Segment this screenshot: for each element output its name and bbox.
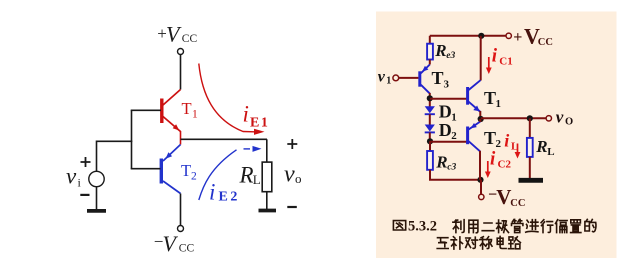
wire RL bottom — [266, 192, 268, 209]
caption char 二 — [482, 223, 494, 231]
label vo — [556, 108, 573, 128]
wire vi top — [96, 141, 98, 172]
svg-text:T: T — [182, 99, 192, 118]
svg-text:1: 1 — [496, 98, 502, 110]
resistor Re3 — [427, 44, 433, 60]
caption char 图 — [393, 221, 405, 230]
label RL — [239, 163, 261, 188]
arrowhead iE1 — [254, 129, 265, 135]
label iE1 — [243, 102, 270, 131]
wire vi to bus — [97, 140, 133, 142]
svg-text:+: + — [513, 29, 522, 46]
svg-text:3: 3 — [444, 79, 450, 91]
wire T2 collector to -Vcc — [180, 194, 182, 226]
label vo — [284, 162, 302, 188]
resistor RL — [527, 138, 533, 157]
svg-text:O: O — [565, 117, 573, 128]
caption char 管 — [512, 219, 523, 232]
ground under RL — [519, 178, 544, 183]
label D2 — [439, 120, 458, 142]
label iC1 — [492, 46, 513, 68]
transistor T2 (PNP, blue) — [161, 145, 180, 194]
wire Rc3 to bottom rail — [429, 170, 481, 181]
svg-text:L: L — [253, 172, 261, 187]
svg-text:i: i — [490, 148, 496, 169]
label D1 — [439, 101, 457, 123]
label Rc3 — [435, 152, 456, 172]
wire -Vcc stub — [480, 180, 482, 194]
transistor T2 (PNP, blue) — [468, 122, 481, 152]
wire Re3 top stub — [429, 36, 431, 44]
svg-text:T: T — [181, 161, 191, 180]
svg-text:1: 1 — [386, 76, 391, 87]
svg-text:C1: C1 — [499, 56, 512, 68]
terminal v1 — [393, 75, 399, 81]
wire RL top — [266, 139, 268, 161]
ground under RL — [259, 209, 277, 213]
ground under vi — [87, 209, 106, 213]
wire base T1 — [131, 109, 161, 111]
svg-text:T: T — [484, 88, 496, 108]
figure panel background — [376, 12, 617, 259]
label vi polarity - — [80, 194, 89, 196]
svg-text:2: 2 — [451, 130, 457, 142]
svg-text:C2: C2 — [498, 159, 512, 171]
label -Vcc — [154, 231, 195, 256]
wire output — [481, 117, 546, 119]
caption char 称 — [480, 237, 492, 249]
wire D1 to D2 — [429, 114, 431, 124]
junction dot bottom rail — [477, 177, 483, 183]
junction dot top rail — [478, 33, 484, 39]
current arrow iL — [517, 144, 519, 155]
svg-text:1: 1 — [192, 109, 198, 121]
wire RL bottom — [529, 157, 531, 178]
svg-text:i: i — [209, 180, 215, 205]
wire RL top — [529, 118, 531, 138]
svg-text:v: v — [284, 162, 295, 188]
svg-text:i: i — [504, 130, 509, 150]
svg-text:R: R — [239, 163, 254, 188]
junction dot node A — [427, 95, 433, 101]
wire T1 emitter to junction — [479, 111, 481, 119]
wire T2 collector down — [479, 151, 481, 180]
caption char 利 — [453, 220, 464, 233]
svg-text:T: T — [484, 128, 496, 148]
svg-text:T: T — [432, 68, 444, 88]
caption char 的 — [585, 219, 596, 231]
label iC2 — [490, 148, 511, 170]
caption char 置 — [571, 220, 581, 233]
wire Vcc to T1 collector — [180, 55, 182, 90]
terminal vo — [546, 116, 551, 121]
label iL — [504, 130, 518, 152]
label +Vcc — [157, 22, 197, 47]
caption char 极 — [497, 220, 509, 233]
svg-text:o: o — [295, 171, 302, 186]
caption — [393, 219, 596, 249]
label vi polarity + — [81, 157, 91, 167]
wire output node — [181, 138, 268, 140]
svg-text:5.3.2: 5.3.2 — [408, 219, 437, 235]
label T1 — [484, 88, 501, 110]
label T1 — [182, 99, 199, 121]
wire Re3 to T3 emitter — [429, 60, 431, 65]
wire base bus vertical — [131, 110, 133, 168]
caption char 偏 — [556, 220, 568, 233]
T1 emitter arrowhead — [473, 106, 479, 112]
terminal -Vcc — [178, 226, 184, 232]
wire node B to Rc3 — [429, 141, 431, 151]
label vo polarity + — [287, 139, 297, 149]
svg-text:v: v — [378, 69, 386, 86]
terminal +Vcc — [178, 49, 184, 55]
svg-text:i: i — [492, 46, 498, 67]
wire node B to T2 base — [430, 141, 467, 143]
source vi — [89, 171, 104, 186]
svg-text:R: R — [434, 41, 446, 60]
label +Vcc — [513, 23, 553, 48]
current arrow iC2 — [487, 161, 489, 174]
label vo polarity - — [287, 206, 297, 208]
caption char 对 — [466, 237, 478, 248]
svg-text:CC: CC — [538, 37, 553, 48]
terminal +Vcc — [506, 33, 511, 38]
wire emitter junction — [180, 131, 182, 145]
caption char 互 — [437, 238, 448, 249]
caption char 电 — [497, 236, 506, 248]
svg-text:i: i — [243, 102, 249, 127]
svg-text:E1: E1 — [250, 116, 269, 131]
current arc iE2 (blue) — [199, 150, 237, 200]
svg-text:e3: e3 — [446, 51, 455, 61]
svg-text:2: 2 — [496, 138, 502, 150]
svg-text:V: V — [496, 185, 511, 209]
diode D2 — [425, 125, 435, 133]
junction dot emitters — [478, 116, 484, 122]
label -Vcc — [488, 185, 525, 209]
label T2 — [181, 161, 197, 183]
current arrow iC1 — [488, 57, 490, 70]
wire top rail — [430, 35, 506, 37]
arrowhead iE2 — [253, 146, 262, 152]
svg-text:R: R — [535, 137, 547, 156]
caption char 进 — [526, 220, 538, 233]
svg-text:v: v — [556, 108, 564, 127]
label T3 — [432, 68, 450, 91]
svg-text:CC: CC — [179, 243, 195, 255]
svg-text:CC: CC — [182, 33, 198, 45]
caption char 行 — [541, 220, 553, 233]
wire Vcc to T1 collector — [480, 36, 482, 81]
T1 emitter arrowhead — [173, 124, 180, 130]
wire D2 to node B — [429, 132, 431, 141]
label T2 — [484, 128, 502, 150]
wire node A to T1 base — [430, 98, 467, 100]
svg-text:L: L — [547, 146, 554, 158]
wire v1 to T3 base — [399, 77, 419, 79]
dash iE2 — [244, 148, 251, 150]
label vi — [66, 164, 82, 190]
wire base T2 — [131, 168, 161, 170]
junction dot node B — [427, 138, 433, 144]
current arc iE1 (red) — [199, 64, 254, 132]
resistor RL — [262, 162, 272, 192]
T3 emitter arrowhead — [422, 66, 428, 72]
label v1 — [378, 69, 392, 87]
wire vi bottom — [96, 187, 98, 210]
caption char 用 — [469, 220, 478, 233]
transistor T1 (NPN, red) — [162, 90, 181, 132]
svg-text:D: D — [439, 120, 452, 140]
resistor Rc3 — [427, 151, 433, 170]
caption char 路 — [509, 237, 521, 249]
label RL — [535, 137, 554, 158]
svg-text:2: 2 — [191, 171, 197, 183]
label Re3 — [434, 41, 455, 61]
svg-text:c3: c3 — [447, 163, 456, 173]
svg-text:CC: CC — [510, 198, 525, 209]
transistor T1 (NPN, blue) — [468, 80, 481, 112]
T2 emitter arrowhead — [166, 152, 173, 158]
wire T3 collector to diode column — [429, 93, 431, 107]
diode D1 — [425, 106, 435, 114]
svg-text:1: 1 — [451, 112, 457, 124]
junction dot RL tap — [527, 115, 533, 121]
svg-text:E2: E2 — [219, 190, 240, 205]
svg-text:R: R — [435, 152, 447, 171]
wire T2 emitter junction — [479, 119, 481, 122]
svg-text:D: D — [439, 101, 452, 121]
T2 emitter arrowhead — [471, 123, 477, 128]
transistor T3 (PNP, blue) — [420, 65, 430, 94]
label iE2 — [209, 180, 240, 205]
caption char 补 — [451, 237, 462, 249]
terminal -Vcc — [479, 194, 484, 199]
svg-text:v: v — [66, 164, 77, 189]
